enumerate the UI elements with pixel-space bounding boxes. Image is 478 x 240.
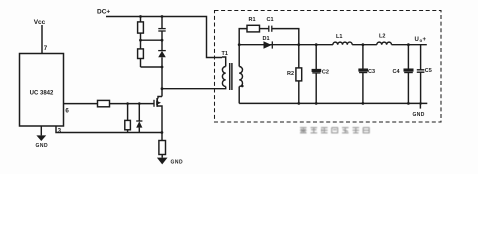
- transformer T1 primary: [222, 57, 226, 67]
- svg-text:U: U: [415, 37, 419, 43]
- node gnd R2: [297, 102, 300, 105]
- capacitor C3: [362, 45, 364, 69]
- svg-text:C2: C2: [322, 70, 329, 76]
- wire snubber mid: [141, 39, 163, 41]
- capacitor C5: [420, 45, 422, 70]
- svg-text:Vcc: Vcc: [34, 19, 46, 26]
- node gnd C2: [315, 102, 318, 105]
- svg-text:DC+: DC+: [97, 9, 110, 16]
- svg-text:L2: L2: [379, 34, 385, 40]
- wire DC+ rail: [106, 17, 222, 58]
- node gnd C4: [407, 102, 410, 105]
- wire GND stem under U1: [40, 126, 42, 135]
- svg-text:C1: C1: [267, 17, 274, 23]
- capacitor C4: [407, 45, 409, 69]
- node drain top: [161, 66, 164, 69]
- svg-text:3: 3: [58, 127, 62, 134]
- resistor gate-source: [125, 120, 131, 129]
- node mid right: [161, 39, 164, 42]
- snubber RC across D1: [239, 29, 247, 45]
- op-amp U1 UC3842 box: [20, 54, 64, 127]
- svg-text:GND: GND: [36, 143, 49, 149]
- dashed output box: [215, 11, 442, 123]
- wire output ground rail: [239, 102, 427, 104]
- resistor snubber upper: [138, 22, 144, 33]
- wire pin3 jog: [56, 126, 162, 133]
- node rail R2: [297, 43, 300, 46]
- node gate-zener: [138, 102, 141, 105]
- wire drain vertical: [161, 67, 163, 97]
- svg-text:UC 3842: UC 3842: [30, 91, 54, 97]
- caption blurred chinese: [300, 127, 370, 133]
- diode snubber: [161, 40, 163, 50]
- svg-text:L1: L1: [336, 34, 342, 40]
- transformer core: [229, 63, 231, 90]
- zener diode gate clamp: [136, 120, 142, 122]
- svg-text:GND: GND: [413, 112, 425, 118]
- svg-text:T1: T1: [222, 51, 228, 57]
- wire zener top lead: [138, 104, 140, 121]
- wire zener bottom lead: [138, 128, 140, 133]
- node sense junction: [161, 131, 164, 134]
- wire pin6 to gate resistor: [64, 103, 98, 105]
- wire branch down to R from gate wire: [127, 104, 129, 121]
- wire cap top lead: [161, 17, 163, 29]
- wire R1a top lead: [140, 17, 142, 22]
- ground output stub: [419, 103, 421, 108]
- ground under U1: [36, 135, 46, 141]
- svg-text:R2: R2: [287, 71, 294, 77]
- resistor gate series: [98, 100, 110, 106]
- node rail start: [238, 43, 241, 46]
- svg-text:7: 7: [44, 45, 48, 52]
- wire resistor to gate: [110, 103, 154, 105]
- node rail C4: [407, 43, 410, 46]
- svg-text:C3: C3: [368, 69, 375, 75]
- wire R1a bottom lead: [140, 33, 142, 40]
- svg-text:C5: C5: [425, 68, 432, 74]
- node gnd C3: [362, 102, 365, 105]
- svg-text:C4: C4: [393, 69, 401, 75]
- node phase dot secondary: [241, 85, 244, 88]
- transistor Q1 mosfet: [158, 97, 162, 99]
- wire drain to primary: [162, 87, 226, 89]
- node drain-transformer: [161, 87, 164, 90]
- node rail-C snubber: [161, 15, 164, 18]
- capacitor C2: [315, 45, 317, 70]
- wire R to lower wire: [127, 130, 129, 133]
- svg-text:D1: D1: [263, 36, 270, 42]
- resistor R2: [298, 45, 300, 68]
- wire snubber bottom: [141, 66, 163, 68]
- wire cap bottom lead: [161, 31, 163, 40]
- wire output top rail: [239, 44, 333, 46]
- svg-text:+: +: [423, 37, 427, 43]
- svg-text:GND: GND: [171, 160, 184, 166]
- resistor source sense: [161, 133, 163, 141]
- node gate-R: [126, 102, 129, 105]
- wire Vcc stem: [41, 25, 43, 54]
- node rail C2: [315, 43, 318, 46]
- transformer T1 secondary: [238, 45, 240, 67]
- node mid left: [139, 39, 142, 42]
- svg-text:6: 6: [65, 107, 69, 114]
- ground source: [157, 158, 168, 165]
- resistor snubber lower: [140, 40, 142, 49]
- diode D1: [264, 41, 272, 49]
- node rail C3: [362, 43, 365, 46]
- capacitor snubber: [158, 28, 165, 30]
- node rail-R snubber: [139, 15, 142, 18]
- svg-text:R1: R1: [249, 17, 256, 23]
- node gnd C5: [419, 102, 422, 105]
